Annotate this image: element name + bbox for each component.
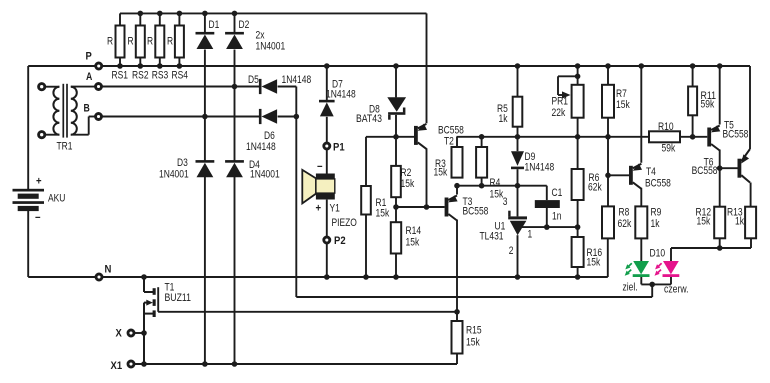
junction T3 base (396,207) xyxy=(393,204,399,210)
junction U1 ref (577.6,227.1) xyxy=(575,224,581,230)
wire TR1 secondary to A xyxy=(71,86,96,88)
label T2 xyxy=(444,136,454,148)
wire top rail to T2 emitter xyxy=(426,13,428,123)
svg-text:22k: 22k xyxy=(552,107,566,119)
svg-text:−: − xyxy=(317,161,323,173)
node X1 xyxy=(128,361,134,367)
resistor R12 xyxy=(714,207,725,239)
svg-text:R14: R14 xyxy=(406,225,422,237)
wire R12 bottom lead xyxy=(719,238,721,248)
label R1 value xyxy=(376,208,390,220)
svg-text:czerw.: czerw. xyxy=(664,284,689,296)
svg-text:BC558: BC558 xyxy=(463,206,489,218)
junction N rail (517.5,277) xyxy=(515,274,521,280)
wire RS3 top lead xyxy=(159,13,161,25)
label D8 xyxy=(369,104,380,116)
junction X1 rail (144,364) xyxy=(141,361,147,367)
wire R4 top lead xyxy=(481,137,483,147)
label R15 xyxy=(466,325,482,337)
svg-text:59k: 59k xyxy=(662,143,676,155)
label RS4 R xyxy=(167,36,173,48)
diode D4 xyxy=(225,160,244,177)
resistor R3 xyxy=(452,147,463,178)
label U1 pin 2 xyxy=(509,245,514,257)
junction N rail (326.8,277) xyxy=(324,274,330,280)
wire X1 rail xyxy=(134,363,457,365)
wire PR1 wiper xyxy=(558,76,578,95)
wire T6 base line xyxy=(720,167,738,169)
label AKU xyxy=(48,193,65,205)
junction main bus (517.5,136.8) xyxy=(515,134,521,140)
svg-text:R8: R8 xyxy=(619,207,630,219)
svg-text:2: 2 xyxy=(509,245,514,257)
wire T3 base line xyxy=(396,206,445,208)
label R8 xyxy=(619,207,630,219)
wire D5 anode to node xyxy=(278,86,297,88)
wire T2 base line xyxy=(366,136,414,138)
resistor R4 xyxy=(476,147,487,178)
junction top rail (179.4,13.4) xyxy=(177,11,183,17)
label R13 xyxy=(727,207,743,219)
label R9 value xyxy=(651,218,661,230)
svg-text:D1: D1 xyxy=(209,19,220,31)
wire RS4 top lead xyxy=(178,13,180,25)
wire A rail xyxy=(102,86,260,88)
wire R6 bottom lead xyxy=(577,200,579,227)
label node B xyxy=(84,103,90,115)
resistor R1 xyxy=(361,186,371,215)
label C1 value xyxy=(552,211,561,223)
LED D10 red xyxy=(655,261,680,277)
wire T1 drain xyxy=(144,277,154,292)
svg-text:X1: X1 xyxy=(111,360,123,372)
svg-text:R15: R15 xyxy=(466,325,482,337)
junction main bus (396,136.8) xyxy=(393,134,399,140)
svg-text:A: A xyxy=(86,71,92,83)
wire R1 top lead xyxy=(365,137,367,186)
wire LED return xyxy=(296,296,652,298)
svg-text:R: R xyxy=(128,36,134,48)
label 1N4148 (D6) xyxy=(246,141,276,153)
label R14 xyxy=(406,225,422,237)
diode D1 xyxy=(196,32,215,49)
label D3 xyxy=(177,157,188,169)
label R3 value xyxy=(434,167,448,179)
battery AKU xyxy=(13,189,45,211)
label node P1 xyxy=(333,142,345,154)
junction B rail (296.3,116.5) xyxy=(294,114,300,120)
junction P rail (641.3,66) xyxy=(639,63,645,69)
junction P rail (577.6,66) xyxy=(575,63,581,69)
wire top rail xyxy=(120,12,427,14)
wire T4 collector to R9 xyxy=(640,188,642,207)
junction P rail (517.5,66) xyxy=(515,63,521,69)
wire TR1 secondary bottom xyxy=(71,117,96,135)
label D2 xyxy=(239,19,250,31)
resistor R7 xyxy=(602,85,614,118)
junction P rail (159.8,66) xyxy=(157,63,163,69)
svg-text:15k: 15k xyxy=(406,237,420,249)
label R4 value xyxy=(490,189,504,201)
label node P2 xyxy=(334,235,346,247)
svg-text:P: P xyxy=(86,51,92,63)
transistor T1 xyxy=(144,287,158,317)
wire RS4 bottom lead xyxy=(178,58,180,67)
junction X1 rail (204.9,364) xyxy=(202,361,208,367)
wire R7 to bus xyxy=(607,118,609,137)
svg-text:X: X xyxy=(116,328,123,340)
svg-text:R9: R9 xyxy=(651,207,662,219)
label R3 xyxy=(435,158,446,170)
svg-text:P1: P1 xyxy=(333,142,345,154)
label R4 xyxy=(490,177,501,189)
label Y1 xyxy=(330,203,340,215)
label PR1 xyxy=(552,96,569,108)
label node X xyxy=(116,328,123,340)
wire R3 top lead xyxy=(456,137,458,147)
resistor R10 xyxy=(649,131,680,142)
transformer TR1 xyxy=(39,84,77,138)
resistor R11 xyxy=(688,87,697,116)
wire D1 top lead xyxy=(204,13,206,32)
wire D7 top lead xyxy=(326,66,328,100)
label R13 value xyxy=(735,216,745,228)
svg-text:BAT43: BAT43 xyxy=(356,113,382,125)
label R10 value xyxy=(662,143,676,155)
diode D8 xyxy=(387,97,406,120)
svg-text:T4: T4 xyxy=(646,166,656,178)
wire LED bus drop xyxy=(651,284,653,297)
svg-text:R4: R4 xyxy=(490,177,501,189)
piezo Y1 xyxy=(302,170,335,204)
label R6 xyxy=(589,172,600,184)
svg-text:15k: 15k xyxy=(490,189,504,201)
transistor T4 xyxy=(629,164,642,189)
svg-text:D3: D3 xyxy=(177,157,188,169)
svg-text:Y1: Y1 xyxy=(330,203,340,215)
label node P xyxy=(86,51,92,63)
label R8 value xyxy=(618,218,632,230)
label R12 value xyxy=(697,216,711,228)
svg-text:1N4148: 1N4148 xyxy=(246,141,276,153)
wire RS3 bottom lead xyxy=(159,58,161,67)
node B xyxy=(96,114,102,120)
label R16 value xyxy=(587,257,601,269)
wire R1 bottom lead xyxy=(365,215,367,278)
label 2x xyxy=(256,30,266,42)
svg-text:1n: 1n xyxy=(552,211,561,223)
label T4 xyxy=(646,166,656,178)
svg-text:TL431: TL431 xyxy=(480,231,504,243)
svg-text:D10: D10 xyxy=(650,248,666,260)
svg-text:R: R xyxy=(147,36,153,48)
wire D3 anode down xyxy=(204,177,206,364)
junction PR1 wiper (577.6,76.3) xyxy=(575,74,581,80)
label T3 xyxy=(463,196,473,208)
wire TR1 primary bottom xyxy=(45,134,60,136)
label T6 BC558 xyxy=(692,165,718,177)
label R2 xyxy=(401,167,412,179)
label T6 xyxy=(704,157,714,169)
diode D3 xyxy=(196,160,215,177)
resistor R9 xyxy=(635,206,647,238)
svg-text:1k: 1k xyxy=(651,218,661,230)
label T3 BC558 xyxy=(463,206,489,218)
svg-text:R10: R10 xyxy=(658,121,674,133)
label R12 xyxy=(696,207,712,219)
junction T3 base (426.5,207) xyxy=(424,204,430,210)
junction P rail (120,66) xyxy=(117,63,123,69)
wire C1 top lead xyxy=(546,186,548,200)
wire R13 bottom lead xyxy=(750,238,752,248)
svg-text:BUZ11: BUZ11 xyxy=(165,292,191,304)
junction P rail (719.7,66) xyxy=(717,63,723,69)
label R1 xyxy=(376,197,387,209)
svg-text:+: + xyxy=(36,176,42,188)
wire T3 collector down xyxy=(456,220,458,312)
wire P rail left xyxy=(28,65,95,67)
label ziel xyxy=(623,282,638,294)
svg-text:PIEZO: PIEZO xyxy=(332,217,357,229)
svg-text:D5: D5 xyxy=(248,74,259,86)
wire P rail xyxy=(102,65,750,67)
junction T3 emitter rail (517.5,185.7) xyxy=(515,183,521,189)
label 1N4148 (D5) xyxy=(282,74,312,86)
svg-text:B: B xyxy=(84,103,90,115)
label 1N4148 (D9) xyxy=(525,162,555,174)
diode D9 xyxy=(511,151,524,169)
svg-text:1k: 1k xyxy=(735,216,745,228)
label RS2 R xyxy=(128,36,134,48)
label T5 xyxy=(724,120,734,132)
wire TR1 primary top xyxy=(45,86,60,88)
junction U1 ref (546.8,227.1) xyxy=(544,224,550,230)
transistor T2 xyxy=(414,124,427,149)
junction main bus (692.6,136.8) xyxy=(690,134,696,140)
junction main bus (481.6,136.8) xyxy=(479,134,485,140)
wire LED cathode bus xyxy=(641,283,671,285)
wire U1 ref line xyxy=(522,226,578,228)
junction P rail (326.8,66) xyxy=(324,63,330,69)
wire rectified node vertical xyxy=(295,87,297,298)
label U1 pin 3 xyxy=(503,196,508,208)
wire R11 top lead xyxy=(692,66,694,87)
label TL431 xyxy=(480,231,504,243)
label T1 xyxy=(165,282,175,294)
label RS3 xyxy=(152,70,169,82)
label T2 BC558 xyxy=(438,125,464,137)
svg-text:BC558: BC558 xyxy=(645,178,671,190)
svg-text:15k: 15k xyxy=(376,208,390,220)
junction N rail (144,277) xyxy=(141,274,147,280)
label R16 xyxy=(587,247,603,259)
svg-text:T2: T2 xyxy=(444,136,454,148)
label R9 xyxy=(651,207,662,219)
label R14 value xyxy=(406,237,420,249)
label R7 xyxy=(616,88,627,100)
svg-text:62k: 62k xyxy=(588,182,602,194)
wire bus to R8 xyxy=(607,137,609,207)
label TR1 xyxy=(57,141,73,153)
svg-text:62k: 62k xyxy=(618,218,632,230)
diode D6 xyxy=(259,109,277,124)
wire red LED anode lead xyxy=(670,248,672,261)
label R5 value xyxy=(499,113,509,125)
resistor RS2 xyxy=(136,26,145,58)
wire RS2 top lead xyxy=(139,13,141,25)
wire battery top xyxy=(27,66,29,189)
wire battery bottom xyxy=(27,211,29,277)
wire R2-R14 link xyxy=(395,197,397,222)
label U1 pin 1 xyxy=(528,229,533,241)
resistor R6 xyxy=(572,169,584,200)
svg-text:RS2: RS2 xyxy=(132,70,149,82)
wire T4 base line xyxy=(608,174,629,176)
wire D4 anode down xyxy=(234,177,236,364)
wire N rail xyxy=(102,276,608,278)
node A xyxy=(96,84,102,90)
label C1 xyxy=(552,187,563,199)
label D7 xyxy=(332,79,343,91)
wire T5 collector to R12 xyxy=(719,150,721,207)
svg-text:1N4001: 1N4001 xyxy=(250,169,280,181)
wire R16 bottom lead xyxy=(577,267,579,277)
wire T2 collector down xyxy=(426,148,428,207)
wire D9 cathode lead xyxy=(517,169,519,186)
wire B rail xyxy=(102,116,260,118)
svg-text:15k: 15k xyxy=(401,178,415,190)
label R11 value xyxy=(701,99,715,111)
wire P1 to piezo xyxy=(326,149,328,173)
label BUZ11 xyxy=(165,292,191,304)
label 1N4001 (D3) xyxy=(159,169,189,181)
wire RS1 top lead xyxy=(119,13,121,25)
label D6 xyxy=(264,130,275,142)
resistor R14 xyxy=(391,222,401,253)
node N xyxy=(96,274,102,280)
svg-text:−: − xyxy=(35,212,41,224)
junction T1 gate (457,311.8) xyxy=(454,309,460,315)
svg-text:15k: 15k xyxy=(697,216,711,228)
svg-text:R: R xyxy=(107,36,113,48)
wire PR1 top lead xyxy=(577,66,579,85)
wire main bus left part xyxy=(457,136,650,138)
junction T4 base (608,175.3) xyxy=(605,173,611,179)
junction P rail (396,66) xyxy=(393,63,399,69)
wire R9 to green LED xyxy=(640,238,642,261)
label battery minus xyxy=(35,212,41,224)
wire R15 top lead xyxy=(456,312,458,321)
svg-text:15k: 15k xyxy=(466,337,480,349)
svg-text:15k: 15k xyxy=(587,257,601,269)
wire U1 cathode lead xyxy=(517,186,519,217)
op-amp U1 xyxy=(508,211,527,236)
junction top rail (234.5,13.4) xyxy=(232,11,238,17)
junction X node (144,333) xyxy=(141,330,147,336)
junction T3 emitter rail (481.6,185.7) xyxy=(479,183,485,189)
label battery plus xyxy=(36,176,42,188)
wire red LED anode line xyxy=(671,247,751,249)
resistor RS3 xyxy=(155,26,164,58)
svg-text:15k: 15k xyxy=(616,99,630,111)
wire T3 emitter lead xyxy=(456,186,458,195)
svg-text:1N4148: 1N4148 xyxy=(326,89,356,101)
label 1N4001 (D4) xyxy=(250,169,280,181)
transistor T5 xyxy=(707,125,720,150)
svg-text:ziel.: ziel. xyxy=(623,282,638,294)
LED D10 green xyxy=(625,261,650,277)
wire T3 emitter rail xyxy=(457,185,547,187)
label RS1 R xyxy=(107,36,113,48)
junction P rail (179.4,66) xyxy=(177,63,183,69)
node P1 xyxy=(324,143,330,149)
label RS3 R xyxy=(147,36,153,48)
wire R16 top lead xyxy=(577,227,579,237)
resistor R16 xyxy=(572,237,584,267)
transistor T3 xyxy=(445,195,458,220)
label T5 BC558 xyxy=(723,129,749,141)
svg-text:1k: 1k xyxy=(499,113,509,125)
label RS1 xyxy=(111,70,128,82)
wire R15 bottom lead xyxy=(456,354,458,365)
wire R7 top lead xyxy=(607,66,609,85)
label node X1 xyxy=(111,360,123,372)
svg-text:RS3: RS3 xyxy=(152,70,169,82)
wire T5 emitter up xyxy=(719,66,721,125)
wire D7 to P1 xyxy=(326,117,328,143)
label BAT43 xyxy=(356,113,382,125)
label R5 xyxy=(497,103,508,115)
resistor R5 xyxy=(513,97,523,127)
wire P2 to N rail xyxy=(326,243,328,277)
junction top rail (204.9,13.4) xyxy=(202,11,208,17)
svg-text:1N4148: 1N4148 xyxy=(282,74,312,86)
resistor R2 xyxy=(391,166,401,197)
wire D8 top lead xyxy=(395,66,397,97)
junction N rail (366,277) xyxy=(363,274,369,280)
wire red LED cathode lead xyxy=(670,277,672,285)
label RS2 xyxy=(132,70,149,82)
resistor R8 xyxy=(602,206,614,238)
label D10 xyxy=(650,248,666,260)
junction A rail (234.5,86.5) xyxy=(232,84,238,90)
wire PR1 to bus xyxy=(577,118,579,137)
label D9 xyxy=(525,151,536,163)
label node A xyxy=(86,71,92,83)
label R15 value xyxy=(466,337,480,349)
wire U1 anode lead xyxy=(517,235,519,277)
label PIEZO xyxy=(332,217,357,229)
svg-text:+: + xyxy=(316,203,322,215)
junction B rail (204.9,116.5) xyxy=(202,114,208,120)
node P xyxy=(96,63,102,69)
wire R4 bottom lead xyxy=(481,178,483,186)
junction P rail (692.6,66) xyxy=(690,63,696,69)
svg-text:1N4148: 1N4148 xyxy=(525,162,555,174)
svg-text:AKU: AKU xyxy=(48,193,65,205)
svg-text:N: N xyxy=(105,264,112,276)
label czerw xyxy=(664,284,689,296)
wire D2 top lead xyxy=(234,13,236,32)
wire R5 bottom lead xyxy=(517,127,519,137)
diode D2 xyxy=(225,32,244,49)
wire bus to R6 xyxy=(577,137,579,169)
junction X1 rail (234.5,364) xyxy=(232,361,238,367)
transistor T6 xyxy=(738,149,751,183)
junction top rail (159.8,13.4) xyxy=(157,11,163,17)
label D5 xyxy=(248,74,259,86)
svg-text:P2: P2 xyxy=(334,235,346,247)
